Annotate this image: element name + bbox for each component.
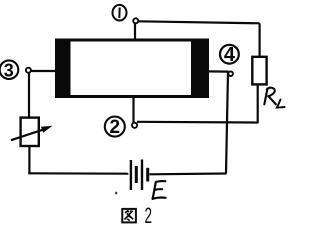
label E (153, 181, 166, 199)
resistor RL (252, 57, 266, 85)
terminal 3 node (26, 68, 31, 73)
battery plate long 2 (141, 160, 143, 191)
terminal 1 lead wire (134, 23, 136, 41)
right electrode band (191, 39, 209, 98)
terminal 2 node (132, 123, 137, 128)
battery plate short 2 (146, 168, 149, 182)
wire terminal3 down to rheostat (28, 73, 30, 118)
svg-text:3: 3 (4, 60, 14, 80)
label 1 badge (113, 5, 127, 21)
caption tu (figure) glyph (122, 209, 136, 223)
wire terminal3 to bar (31, 70, 58, 72)
label RL (264, 88, 284, 108)
terminal 1 node (133, 18, 138, 23)
wire terminal1 to RL top (138, 21, 259, 23)
label 3 badge (0, 60, 18, 80)
rheostat arrow (11, 126, 53, 140)
wire bar to terminal4 (207, 70, 229, 72)
battery plate short 1 (135, 166, 138, 183)
battery plate long 1 (130, 160, 132, 190)
label 2 badge (105, 117, 125, 139)
wire rheostat to battery (28, 146, 128, 174)
semiconductor bar body (57, 40, 208, 97)
terminal 2 lead wire (132, 96, 134, 123)
wire battery to terminal4 (149, 72, 228, 175)
wire RL top drop (259, 23, 261, 57)
left electrode band (55, 39, 71, 98)
rheostat body (21, 118, 39, 146)
label 4 badge (220, 44, 239, 66)
terminal 4 node (228, 71, 233, 76)
wire RL bottom drop (257, 84, 259, 123)
svg-text:4: 4 (224, 44, 236, 66)
svg-text:2: 2 (145, 203, 153, 228)
ink speck (115, 192, 117, 194)
wire terminal2 to RL bottom (137, 121, 259, 124)
svg-text:2: 2 (110, 117, 121, 138)
